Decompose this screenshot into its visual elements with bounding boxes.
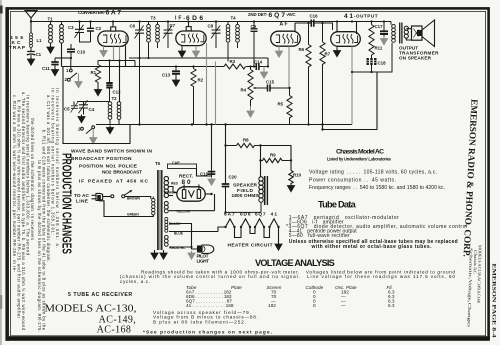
transformer T4 xyxy=(226,22,239,62)
svg-text:RED: RED xyxy=(171,182,179,186)
svg-text:T3: T3 xyxy=(151,16,157,21)
svg-text:with either metal or octal-bas: with either metal or octal-base glass tu… xyxy=(311,244,433,250)
svg-text:C13: C13 xyxy=(162,72,171,77)
tube 6D6 xyxy=(176,22,206,46)
svg-text:C6: C6 xyxy=(130,23,136,28)
wire 6A7 pin drop 2 xyxy=(119,46,121,60)
wire top rail xyxy=(31,21,391,23)
antenna xyxy=(25,11,37,34)
potentiometer R4 volume control xyxy=(248,65,267,106)
capacitor C16 xyxy=(295,20,333,31)
wire osc grid drop xyxy=(119,61,121,103)
ac plug xyxy=(92,193,154,216)
svg-text:AC-168: AC-168 xyxy=(97,325,132,336)
svg-text:C11: C11 xyxy=(42,66,50,71)
svg-text:182: 182 xyxy=(268,303,276,308)
svg-text:Frequency ranges . . 540 to 15: Frequency ranges . . 540 to 1580 kc. and… xyxy=(309,185,445,191)
wire T2 top link xyxy=(77,101,110,103)
svg-text:Voltage rating . . . . . 105-1: Voltage rating . . . . . 105-118 volts, … xyxy=(309,170,437,176)
wire primary top xyxy=(148,215,153,217)
ground under R10 xyxy=(288,184,295,192)
tube 6A7 xyxy=(98,22,128,47)
wire output return xyxy=(351,43,392,73)
ground under 6Q7 xyxy=(276,46,283,57)
wire rect plate stubs xyxy=(184,185,199,190)
wire 6Q7 diode drop xyxy=(288,46,290,88)
ground under C11 xyxy=(52,68,59,76)
wire output B line xyxy=(321,72,377,131)
svg-text:In receivers bearing serial nu: In receivers bearing serial numbers belo… xyxy=(51,88,56,235)
resistor R6 xyxy=(306,22,311,125)
svg-text:C18: C18 xyxy=(378,60,387,65)
wire 6A7 plate to if rail xyxy=(125,46,127,67)
wire rect B plus riser xyxy=(211,125,213,172)
transformer T3 xyxy=(147,22,160,59)
svg-text:TO AC: TO AC xyxy=(74,193,90,199)
capacitor C19 xyxy=(208,172,216,178)
capacitor C11 xyxy=(51,58,58,68)
svg-text:YELLOW: YELLOW xyxy=(176,209,191,213)
ground heater circuit xyxy=(275,242,282,250)
svg-text:1800 OHMS: 1800 OHMS xyxy=(232,193,260,199)
wire 6A7 pin drop 1 xyxy=(113,46,115,60)
ground under transformer left xyxy=(151,250,158,259)
svg-text:IF PEAKED AT 456 KC: IF PEAKED AT 456 KC xyxy=(79,178,149,184)
capacitor C9 xyxy=(251,22,258,68)
svg-text:Tube Data: Tube Data xyxy=(318,200,357,210)
capacitor C2 xyxy=(87,22,94,43)
switch osc band contacts xyxy=(81,126,95,134)
svg-text:R2: R2 xyxy=(198,77,204,82)
svg-text:T5: T5 xyxy=(155,161,161,166)
ground under C1 xyxy=(28,57,35,65)
svg-text:SPEAKER: SPEAKER xyxy=(233,183,258,189)
wire tap red xyxy=(169,187,177,193)
wire R10 riser xyxy=(261,146,292,171)
svg-text:BROADCAST POSITION: BROADCAST POSITION xyxy=(71,156,132,162)
svg-text:LINE: LINE xyxy=(76,198,89,204)
svg-text:a. The second detector and fir: a. The second detector and first audio a… xyxy=(21,92,26,331)
svg-text:a. C17 was a .001 mf, 900 volt: a. C17 was a .001 mf, 900 volt tubular c… xyxy=(46,95,51,262)
ground under R1 xyxy=(95,88,102,96)
cap box line filter xyxy=(168,164,197,169)
resistor R11 xyxy=(369,20,374,58)
ground under C17 xyxy=(381,37,388,45)
resistor R10 xyxy=(289,171,293,185)
svg-text:R7: R7 xyxy=(325,51,331,56)
svg-text:R11: R11 xyxy=(375,45,383,50)
capacitor C13 xyxy=(172,67,180,79)
wire 6D6 plate drop xyxy=(206,43,208,125)
resistor R7 xyxy=(320,22,325,130)
svg-text:80: 80 xyxy=(182,179,191,186)
heater filament 41 xyxy=(268,219,279,228)
svg-text:FIELD: FIELD xyxy=(237,188,254,194)
heater filament 6Q7 xyxy=(254,219,265,228)
svg-text:41 . . . . . . . . . . . . . 1: 41 . . . . . . . . . . . . . 168 xyxy=(186,303,234,308)
svg-text:NO2 BROADCAST: NO2 BROADCAST xyxy=(102,169,142,175)
svg-text:In receivers bearing serial nu: In receivers bearing serial numbers belo… xyxy=(26,95,31,256)
svg-text:cycles, a.c.: cycles, a.c. xyxy=(120,279,150,284)
svg-text:Power consumption . . 45 watts: Power consumption . . 45 watts. xyxy=(309,178,396,184)
svg-text:-OUTPUT: -OUTPUT xyxy=(354,14,378,19)
resistor R2 xyxy=(191,67,196,125)
wire osc box left xyxy=(63,67,130,144)
ground under C4 xyxy=(78,115,85,123)
trimmer C4 xyxy=(79,99,89,114)
svg-text:VOLTAGE ANALYSIS: VOLTAGE ANALYSIS xyxy=(255,258,335,268)
svg-text:*See production changes on nex: *See production changes on next page. xyxy=(143,329,272,334)
switch wave band contacts 1-2 xyxy=(67,58,77,81)
resistor R5 xyxy=(287,88,292,125)
svg-text:(chassis) with the volume cont: (chassis) with the volume control turned… xyxy=(120,274,455,279)
capacitor C20 xyxy=(222,184,230,212)
wire tap redyel xyxy=(169,246,193,248)
output transformer xyxy=(391,22,412,44)
svg-text:Plate: Plate xyxy=(231,285,242,290)
svg-text:Listed by Underwriters' Labora: Listed by Underwriters' Laboratories xyxy=(327,157,392,162)
svg-text:2ND DET-: 2ND DET- xyxy=(248,12,268,17)
svg-text:0: 0 xyxy=(313,303,316,308)
svg-text:PILOT: PILOT xyxy=(197,253,209,259)
capacitor C17 xyxy=(380,20,388,37)
tube 41 xyxy=(331,22,361,47)
capacitor C12 xyxy=(106,61,112,103)
svg-text:5 TUBE AC RECEIVER: 5 TUBE AC RECEIVER xyxy=(68,292,133,298)
svg-text:-AVC: -AVC xyxy=(286,12,296,17)
svg-text:R6: R6 xyxy=(299,47,305,52)
svg-text:b. R11 and C18 were connected: b. R11 and C18 were connected from the p… xyxy=(42,130,47,331)
svg-text:MODELS AC-130,: MODELS AC-130, xyxy=(45,304,137,315)
border bottom heavy xyxy=(6,336,490,341)
svg-text:c. R10 was a 35 ohm ½ watt wir: c. R10 was a 35 ohm ½ watt wire-wound re… xyxy=(12,95,17,273)
speaker field coil xyxy=(224,176,267,214)
switch power on-off xyxy=(104,190,151,217)
svg-text:T4: T4 xyxy=(231,16,237,21)
resistor R1 xyxy=(95,61,100,88)
svg-text:C4: C4 xyxy=(89,107,95,112)
ground at osc switch xyxy=(90,129,97,144)
ground pilot xyxy=(188,251,195,259)
svg-text:POSITION NO1 POLICE: POSITION NO1 POLICE xyxy=(79,164,138,170)
capacitor C1 xyxy=(27,52,35,58)
ground under 41 xyxy=(334,46,341,56)
svg-text:R5: R5 xyxy=(278,101,284,106)
svg-text:ON SPEAKER: ON SPEAKER xyxy=(399,56,432,61)
wire tap black1 stub xyxy=(169,195,173,197)
svg-text:L1: L1 xyxy=(37,38,43,43)
svg-text:R4: R4 xyxy=(241,87,247,92)
svg-text:Chassis Model AC: Chassis Model AC xyxy=(336,149,384,156)
heater filament 6A7 xyxy=(224,219,235,228)
wire color labels xyxy=(127,182,191,250)
wire R8 branch xyxy=(224,125,261,184)
svg-text:C3: C3 xyxy=(68,25,74,30)
ground under 6A7 xyxy=(100,46,107,57)
wire avc rail lower xyxy=(62,43,269,67)
capacitor C14 xyxy=(256,63,259,70)
svg-text:6.3: 6.3 xyxy=(388,303,395,308)
svg-text:6Q7: 6Q7 xyxy=(269,12,286,19)
ground under T2 xyxy=(107,126,114,134)
ground at wave band switch xyxy=(75,74,82,88)
svg-text:b. R9 was a 310 ohm ½ watt wir: b. R9 was a 310 ohm ½ watt wire-wound re… xyxy=(17,100,22,319)
svg-text:R3: R3 xyxy=(230,59,236,64)
wire tap blue xyxy=(169,231,218,233)
ground under transformer right xyxy=(160,250,167,259)
transformer T2 xyxy=(108,102,121,125)
wire osc node xyxy=(98,59,135,66)
svg-text:C10: C10 xyxy=(77,49,86,54)
wire heater series links xyxy=(235,227,279,243)
tube 80 rectifier xyxy=(177,187,213,201)
svg-text:PRODUCTION CHANGES: PRODUCTION CHANGES xyxy=(60,153,74,254)
wire heater feed from blue tap xyxy=(218,227,226,232)
speaker xyxy=(412,20,435,47)
transformer T5 power xyxy=(152,170,169,250)
svg-text:AF: AF xyxy=(280,22,288,28)
transformer T1 xyxy=(49,22,64,46)
ground under 6D6 right xyxy=(193,46,200,57)
ground under 6D6 left xyxy=(179,46,186,57)
svg-text:—: — xyxy=(341,303,346,308)
wire bplus bus xyxy=(96,124,352,126)
wire screen feed gray pair xyxy=(215,62,217,125)
wire tap yellow xyxy=(169,194,215,211)
svg-text:LIGHT: LIGHT xyxy=(197,259,210,265)
wire tap black2 to pilot xyxy=(169,224,198,250)
resistor R3 xyxy=(224,64,246,69)
svg-text:In receivers bearing serial nu: In receivers bearing serial numbers belo… xyxy=(55,88,60,248)
svg-text:6A7: 6A7 xyxy=(106,9,122,16)
svg-text:R9: R9 xyxy=(270,152,276,157)
svg-text:C15: C15 xyxy=(266,79,275,84)
ground at C14 xyxy=(261,67,268,79)
svg-text:C5: C5 xyxy=(64,107,70,112)
svg-text:41: 41 xyxy=(271,211,278,217)
svg-text:TRAP: TRAP xyxy=(9,45,26,51)
resistor R9 xyxy=(259,158,292,162)
svg-text:R10: R10 xyxy=(293,172,302,177)
border left heavy xyxy=(5,7,8,341)
capacitor C10 xyxy=(67,44,75,58)
svg-text:to B plus as shown by the dott: to B plus as shown by the dotted lines o… xyxy=(37,160,42,332)
svg-text:C20: C20 xyxy=(229,174,238,179)
scanner edge left xyxy=(0,0,2,345)
svg-text:CONVERTER-: CONVERTER- xyxy=(78,10,105,15)
ground under T1 xyxy=(47,45,54,53)
svg-text:R8: R8 xyxy=(243,137,249,142)
trimmer C5 xyxy=(71,101,79,112)
ground under C13 xyxy=(173,78,180,86)
wire cap box to rectifier node xyxy=(197,169,212,177)
tube 6Q7 xyxy=(271,23,301,46)
inductor L1 xyxy=(30,33,33,51)
trimmer C6 xyxy=(135,22,145,125)
heater filament 6D6 xyxy=(240,219,251,228)
svg-text:EMERSON PAGE 8-4: EMERSON PAGE 8-4 xyxy=(490,264,496,338)
wire C10-C11 link xyxy=(55,57,71,59)
svg-text:C16: C16 xyxy=(310,13,319,18)
svg-text:the dotted lines on the schema: the dotted lines on the schematic diagra… xyxy=(30,118,35,240)
svg-text:BLACK: BLACK xyxy=(169,222,181,226)
svg-text:HEATER CIRCUIT: HEATER CIRCUIT xyxy=(228,242,273,248)
svg-text:B plus at 80 tube filament—252: B plus at 80 tube filament—252. xyxy=(153,319,246,324)
ground under R4 xyxy=(247,106,254,117)
wire speaker field riser xyxy=(260,146,262,177)
wire screen rail xyxy=(129,58,268,67)
svg-text:C17: C17 xyxy=(375,24,384,29)
svg-text:WAVE BAND SWITCH SHOWN IN: WAVE BAND SWITCH SHOWN IN xyxy=(71,148,153,154)
svg-text:T2: T2 xyxy=(112,96,118,101)
pilot light xyxy=(198,245,214,253)
capacitor C18 xyxy=(367,59,377,72)
trimmer C3 xyxy=(75,22,91,43)
trimmer C8 xyxy=(211,22,221,49)
svg-text:T1: T1 xyxy=(48,17,54,22)
junction dots top section xyxy=(30,20,353,125)
ground under C19 xyxy=(208,177,215,185)
capacitor C15 xyxy=(268,85,290,92)
wire 41 screen drop xyxy=(351,46,353,124)
svg-text:C8: C8 xyxy=(208,23,214,28)
svg-text:C1: C1 xyxy=(36,52,42,57)
trimmer C7 xyxy=(163,22,173,49)
svg-text:C2: C2 xyxy=(96,26,102,31)
svg-text:41: 41 xyxy=(344,13,353,20)
